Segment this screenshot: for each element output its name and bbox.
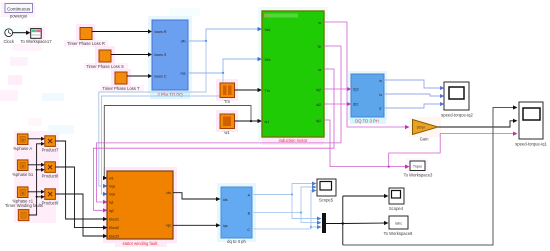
- block Timer Phase Loss S: [86, 50, 124, 69]
- svg-text:0: 0: [22, 139, 24, 143]
- product Product9: [42, 189, 59, 206]
- svg-text:iq1: iq1: [316, 119, 321, 123]
- svg-text:Product7: Product7: [42, 148, 59, 153]
- svg-text:C: C: [247, 228, 250, 232]
- wire motor id2 to converter iD2: [324, 102, 351, 106]
- svg-text:%phase A: %phase A: [13, 146, 32, 151]
- wire motor iq2 to converter iQ2: [324, 87, 351, 91]
- wire motor id2sig left to stator iq2 (magenta v3): [94, 69, 335, 212]
- wire Te branch up to scope iq1 input3: [388, 132, 518, 168]
- svg-text:stator winding fault: stator winding fault: [123, 241, 159, 246]
- svg-text:Va1: Va1: [265, 28, 271, 32]
- svg-text:%phase b1: %phase b1: [12, 172, 34, 177]
- svg-text:Timer Phase Loss R: Timer Phase Loss R: [67, 41, 105, 46]
- svg-text:iqs: iqs: [223, 224, 228, 228]
- svg-text:Elect3: Elect3: [109, 235, 119, 239]
- wire motor w to Gain (magenta v1): [324, 22, 410, 129]
- to-workspace block To Workspace3 (Trque): [404, 161, 433, 178]
- wire Product9 to stator Elect3: [55, 194, 107, 238]
- svg-text:speed-torque-iq1: speed-torque-iq1: [515, 142, 547, 147]
- svg-text:Elect2: Elect2: [109, 226, 119, 230]
- svg-text:DQ TO 3 PH: DQ TO 3 PH: [355, 119, 379, 124]
- svg-text:Scope4: Scope4: [389, 206, 404, 211]
- svg-text:Tm: Tm: [265, 89, 270, 93]
- scope speed-torque-iq2: [441, 82, 473, 118]
- svg-text:speed-torque-iq2: speed-torque-iq2: [441, 113, 473, 118]
- scope Scope5: [317, 179, 336, 203]
- svg-text:loses R: loses R: [155, 30, 167, 34]
- svg-text:id2: id2: [316, 103, 321, 107]
- svg-text:Timer Phase Loss T: Timer Phase Loss T: [102, 86, 140, 91]
- svg-text:ma: ma: [181, 72, 186, 76]
- subsystem source 3 Pha TO DQ: [152, 20, 190, 97]
- wire source vfb to motor Va and down-loop: [99, 27, 262, 188]
- block Timer Winding faults: [5, 203, 43, 221]
- svg-text:Vds: Vds: [109, 193, 115, 197]
- svg-text:To Workspace17: To Workspace17: [20, 39, 52, 44]
- svg-text:dq to 3 ph: dq to 3 ph: [227, 239, 246, 244]
- svg-text:Timer Phase Loss S: Timer Phase Loss S: [86, 64, 124, 69]
- wire dq A to Scope5 and Mux: [252, 182, 322, 221]
- wire Clock to ToWorkspace17: [13, 31, 31, 35]
- block %phase b1: [12, 160, 34, 177]
- wire TimerPhaseLossR to source: [92, 29, 152, 33]
- subsystem induction motor: [262, 11, 324, 143]
- wire w1 to motor with branch to stator fault: [103, 106, 262, 181]
- wire Tm to motor: [235, 88, 263, 92]
- wire %phaseA to Product7: [28, 137, 45, 141]
- wire converter is to scope iq2 in2: [384, 94, 445, 98]
- wire dq C to Scope5 and Mux: [252, 189, 322, 230]
- svg-text:Product9: Product9: [42, 201, 59, 206]
- svg-text:powergui: powergui: [10, 14, 27, 19]
- svg-text:Clock: Clock: [3, 39, 14, 44]
- scope Scope4: [389, 188, 404, 211]
- gain Gain 30/pi: [413, 120, 439, 142]
- svg-text:loses S: loses S: [155, 53, 167, 57]
- svg-text:0: 0: [22, 165, 24, 169]
- wire mux-bottom feedback up to scope iq1 in1: [343, 105, 518, 245]
- svg-text:iabc: iabc: [395, 222, 402, 226]
- svg-text:w: w: [379, 79, 382, 83]
- wire %phaseb1 to Product8: [28, 163, 45, 167]
- wire motor Te to To Workspace3 (magenta v4): [324, 120, 410, 169]
- svg-text:iqs: iqs: [166, 224, 171, 228]
- svg-text:Product8: Product8: [42, 174, 59, 179]
- svg-text:Timer Winding faults: Timer Winding faults: [5, 203, 43, 208]
- svg-text:Te: Te: [317, 45, 321, 49]
- wire mux output with branches: [326, 194, 389, 245]
- wire stator ids to dq block: [173, 223, 221, 227]
- block Tm: [220, 83, 235, 104]
- svg-text:loses C: loses C: [155, 75, 167, 79]
- block %phase c1: [12, 187, 33, 204]
- block Timer Phase Loss T: [102, 72, 140, 91]
- svg-text:Scope5: Scope5: [319, 198, 334, 203]
- to-workspace block To Workspace17: [20, 29, 52, 45]
- svg-text:w1: w1: [109, 177, 114, 181]
- svg-text:w1: w1: [265, 120, 270, 124]
- to-workspace block To Workspace8 (iabc): [384, 216, 413, 236]
- wire motor iq2sig left to stator iq1 (magenta v2): [97, 46, 342, 204]
- svg-text:To Workspace8: To Workspace8: [384, 231, 413, 236]
- svg-text:iq2: iq2: [316, 88, 321, 92]
- svg-text:Vb1: Vb1: [265, 58, 271, 62]
- svg-text:iQ2: iQ2: [353, 88, 359, 92]
- wire TimerPhaseLossT to source: [127, 74, 152, 78]
- block %phase A: [13, 134, 32, 151]
- svg-text:Trque: Trque: [413, 165, 422, 169]
- clock Clock: [3, 29, 14, 44]
- wire dq B to Scope5 and Mux: [252, 185, 322, 225]
- svg-text:Tm: Tm: [224, 99, 231, 104]
- subsystem DQ TO 3 PH (right converter): [351, 74, 384, 124]
- subsystem stator winding fault: [107, 171, 173, 246]
- wire Product7 to stator Elect1: [55, 141, 107, 221]
- svg-text:induction motor: induction motor: [279, 138, 308, 143]
- wire Product8 to stator Elect2: [55, 167, 107, 230]
- svg-text:ids: ids: [223, 198, 228, 202]
- wire TimerWindingFaults to products second inputs: [29, 142, 45, 215]
- wire TimerPhaseLossS to source: [111, 52, 152, 56]
- svg-text:vfb: vfb: [181, 40, 186, 44]
- product Product7: [42, 136, 59, 153]
- wire source ma to motor Vb and down-loop: [102, 57, 263, 196]
- product Product8: [42, 162, 59, 179]
- svg-text:30/pi: 30/pi: [417, 126, 425, 130]
- svg-text:To Workspace3: To Workspace3: [404, 173, 433, 178]
- jpeg artifact halos (decorative): [0, 2, 441, 247]
- svg-text:w: w: [318, 21, 321, 25]
- subsystem dq to 3 ph: [221, 187, 252, 244]
- wire %phasec1 to Product9: [28, 190, 45, 194]
- block Timer Phase Loss R: [67, 28, 105, 47]
- scope speed-torque-iq1: [515, 102, 547, 147]
- svg-text:0: 0: [22, 192, 24, 196]
- svg-text:ids: ids: [166, 191, 171, 195]
- mux Mux1: [322, 213, 326, 233]
- svg-text:Elect1: Elect1: [109, 218, 119, 222]
- wire stator iqs to dq block: [173, 193, 221, 201]
- wire converter w to scope iq2 in1: [384, 80, 445, 90]
- block w1: [220, 114, 235, 135]
- wire Gain output to scope iq1 input2: [438, 119, 518, 127]
- svg-text:Vqs: Vqs: [109, 185, 115, 189]
- svg-text:Gain: Gain: [420, 137, 430, 142]
- svg-text:w1: w1: [224, 130, 230, 135]
- wire converter iT to scope iq2 in3: [384, 102, 445, 108]
- svg-text:iD2: iD2: [353, 103, 358, 107]
- svg-text:ia: ia: [318, 68, 321, 72]
- svg-text:iq1: iq1: [109, 201, 114, 205]
- svg-text:is: is: [379, 93, 382, 97]
- svg-text:Continuous: Continuous: [7, 7, 31, 12]
- powergui U_powergui: [5, 4, 33, 19]
- svg-text:iq2: iq2: [109, 209, 114, 213]
